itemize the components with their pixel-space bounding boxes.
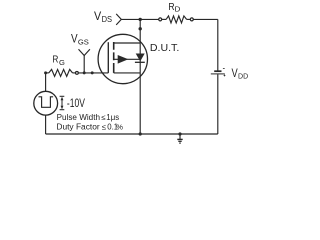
svg-text:D: D — [175, 5, 181, 14]
transistor body stub — [114, 58, 141, 60]
ground — [177, 134, 182, 143]
svg-text:%: % — [116, 122, 123, 131]
label VDD — [232, 68, 249, 81]
svg-text:GS: GS — [78, 37, 89, 46]
label VDS — [94, 9, 112, 24]
wire bottom rail — [46, 133, 218, 135]
svg-text:DD: DD — [238, 72, 248, 81]
svg-text:-10V: -10V — [67, 96, 85, 110]
transistor channel segments — [113, 42, 115, 73]
pulse waveform glyph — [39, 97, 54, 108]
transistor gate bar — [107, 42, 109, 73]
svg-text:V: V — [71, 33, 78, 45]
svg-text:D.U.T.: D.U.T. — [150, 43, 179, 54]
node gate terminal — [91, 71, 94, 74]
node VGS probe junction — [83, 71, 86, 74]
wire battery to bottom rail — [217, 74, 219, 134]
node RG left corner junction — [44, 71, 47, 74]
svg-text:R: R — [52, 55, 58, 66]
battery plus sign — [224, 75, 226, 77]
node ground junction — [178, 132, 181, 135]
label RG — [52, 55, 65, 67]
wire right rail down to battery — [217, 19, 219, 70]
svg-text:Duty Factor: Duty Factor — [56, 121, 100, 131]
wire top rail left segment — [121, 18, 159, 20]
svg-text:≤: ≤ — [102, 122, 107, 131]
resistor RG — [46, 72, 49, 74]
battery VDD negative plate — [214, 70, 221, 72]
pulse amplitude indicator — [60, 96, 65, 109]
note pulse width / duty factor — [56, 112, 123, 131]
transistor body circle — [98, 34, 147, 83]
svg-text:V: V — [232, 68, 238, 80]
transistor body arrow — [118, 55, 129, 64]
transistor source stub — [114, 72, 141, 74]
VGS probe arrowhead and stem — [79, 49, 90, 55]
pulse generator — [45, 73, 47, 91]
battery minus sign — [223, 68, 225, 70]
node source junction — [139, 132, 142, 135]
svg-text:DS: DS — [102, 15, 113, 24]
svg-text:μs: μs — [111, 113, 119, 122]
wire gate net — [78, 72, 108, 74]
VDS probe arrowhead — [116, 14, 121, 25]
body diode — [136, 54, 145, 62]
resistor RD — [162, 18, 166, 20]
svg-text:G: G — [59, 58, 65, 67]
battery VDD positive plate — [211, 73, 225, 75]
wire top rail right segment — [193, 18, 218, 20]
wire drain-source vertical line — [139, 19, 141, 134]
transistor drain stub — [114, 42, 141, 44]
node drain junction — [139, 18, 142, 21]
label VGS — [71, 33, 89, 46]
node drain terminal — [139, 27, 142, 30]
label RD — [168, 2, 181, 14]
